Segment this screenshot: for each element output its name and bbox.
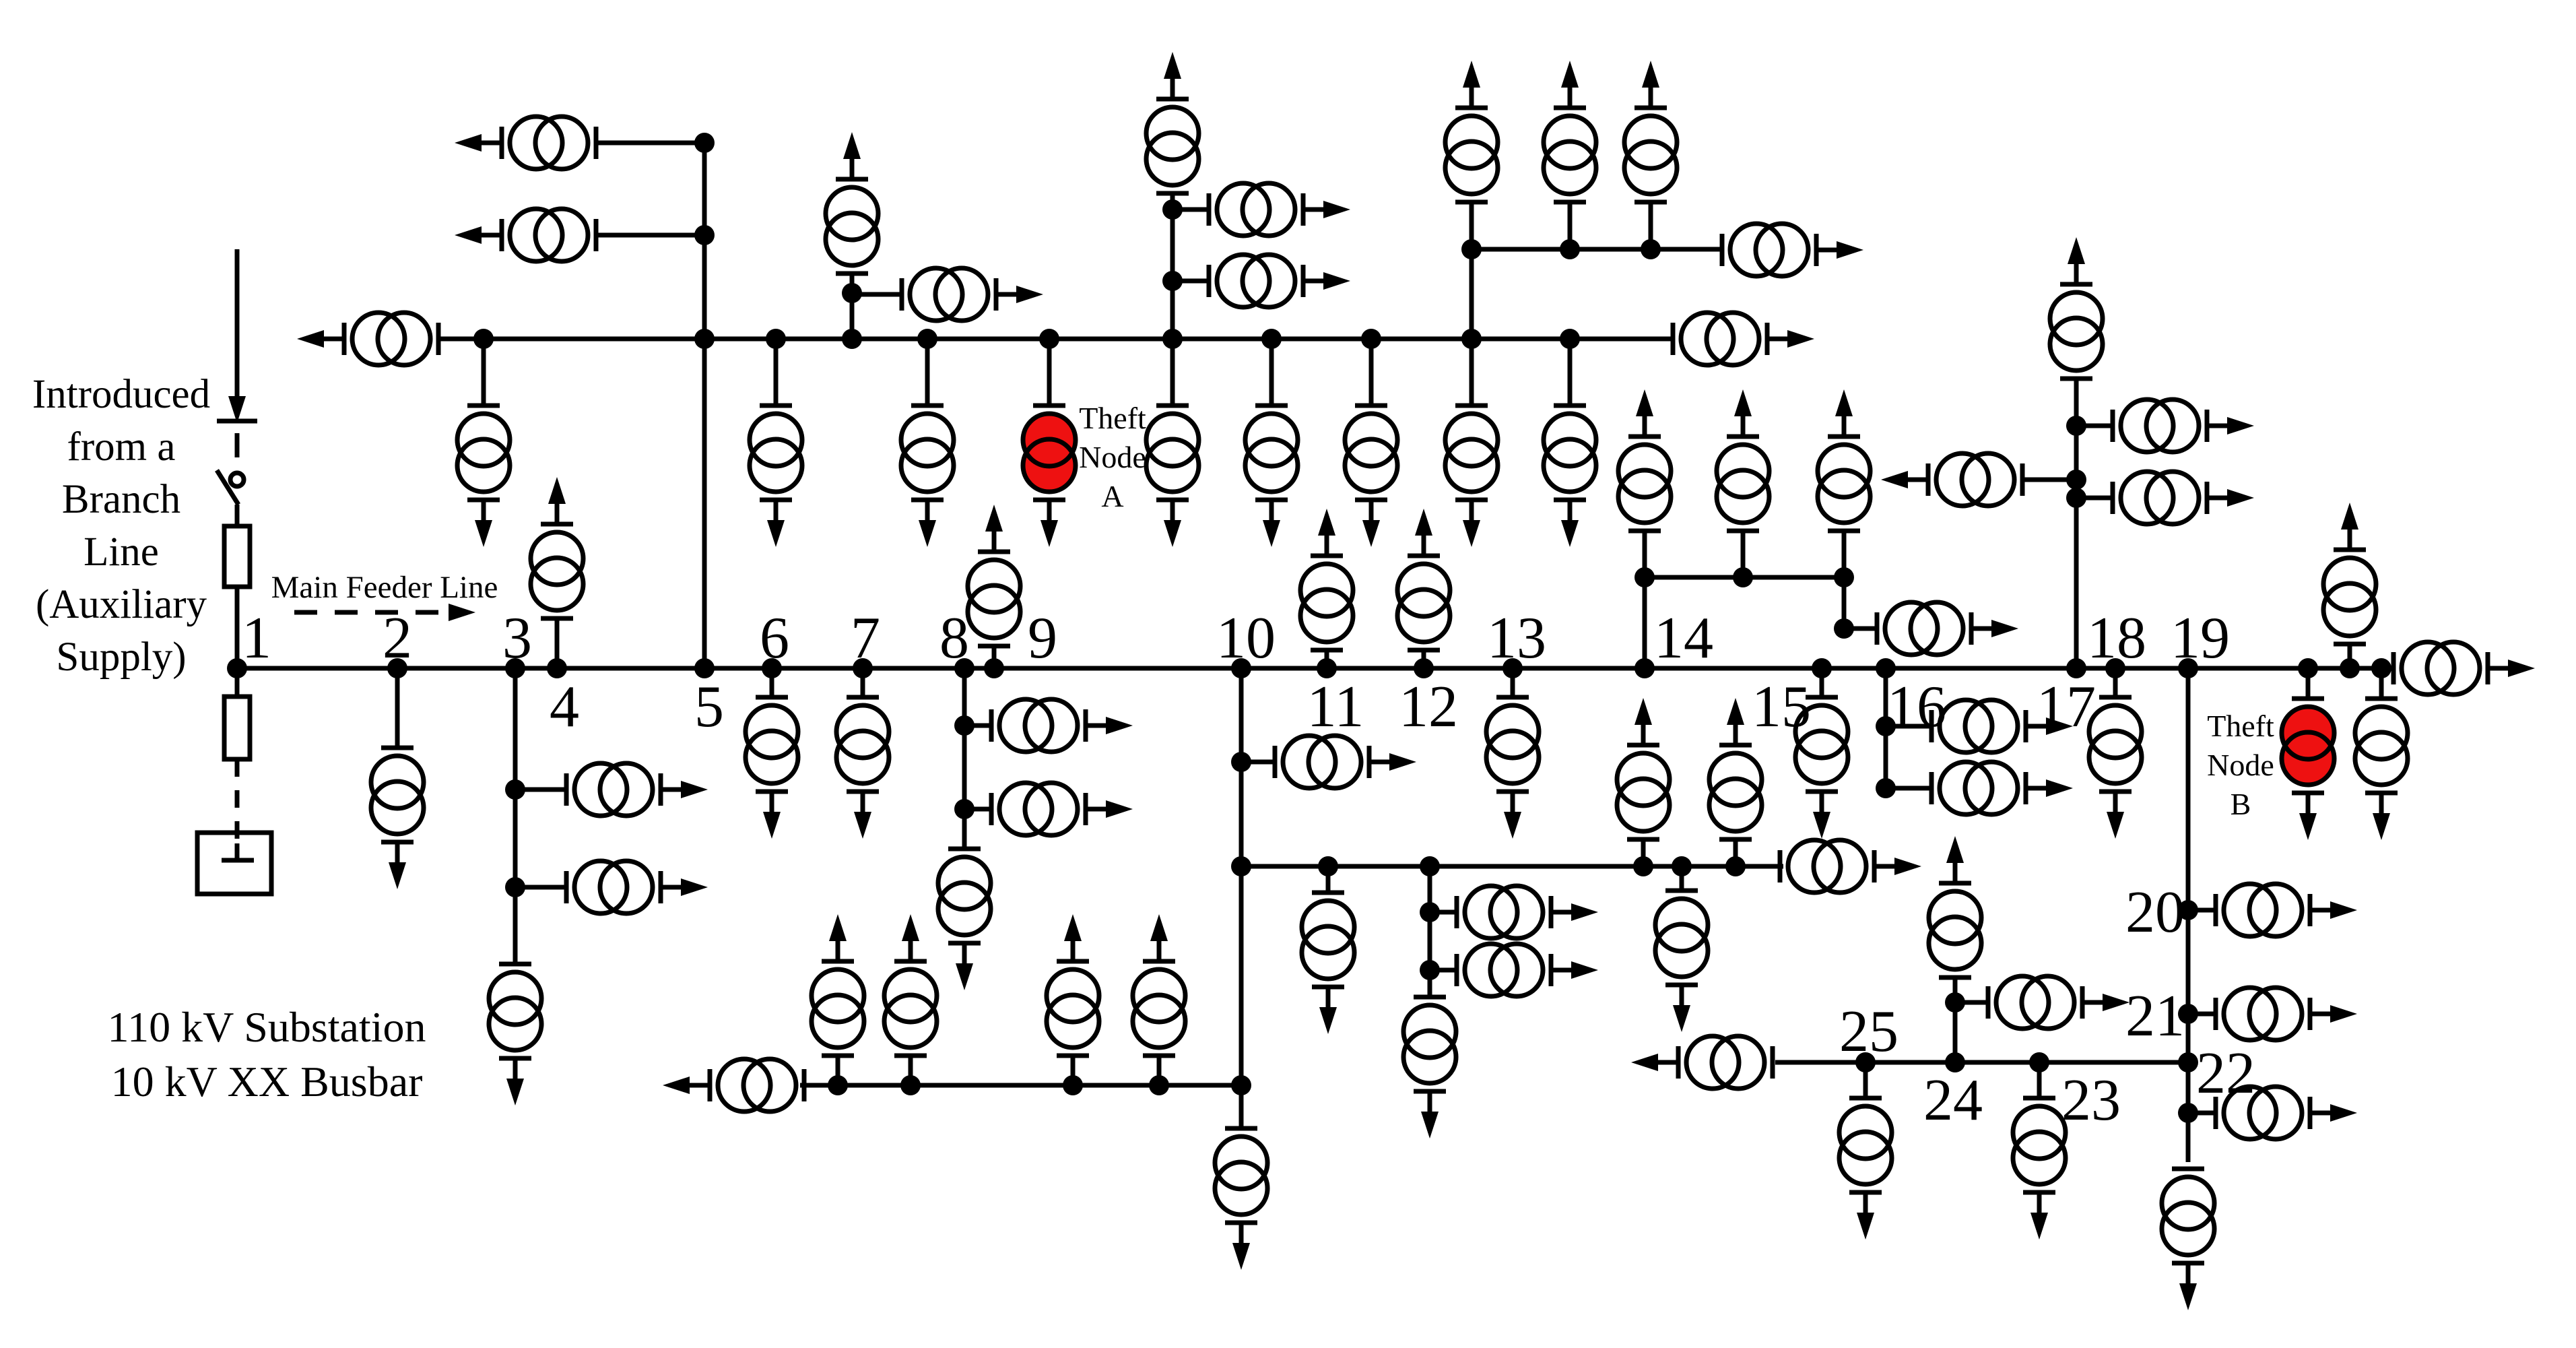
junction x=3249 y=1577 [2178, 1052, 2198, 1072]
transformer T43 [2355, 699, 2408, 840]
junction x=765 y=1317 [505, 877, 525, 897]
wire node-25 drop stub [1863, 1062, 1868, 1098]
junction x=1741 y=311 [1162, 199, 1183, 220]
junction x=1593 y=1611 [1063, 1075, 1083, 1095]
svg-text:21: 21 [2125, 984, 2185, 1049]
svg-text:B: B [2231, 787, 2251, 821]
wire sub-feeder drop stub 2497 [1680, 866, 1684, 891]
transformer T17 [1209, 183, 1350, 236]
transformer T58 [1457, 886, 1598, 938]
transformer T56 [1709, 698, 1762, 839]
transformer T33 [1300, 509, 1353, 650]
svg-text:8: 8 [939, 606, 969, 671]
transformer bus right end [1673, 313, 1814, 365]
transformer T62 [812, 914, 864, 1056]
transformer T20 [1544, 61, 1596, 202]
wire riser at 1741 [1170, 193, 1175, 339]
svg-text:3: 3 [502, 606, 532, 671]
wire node-5 riser [702, 143, 707, 668]
transformer T11 [1345, 406, 1397, 547]
junction x=1265 y=435 [842, 283, 862, 303]
junction bus x=1265 [842, 329, 862, 349]
junction x=3249 y=1351 [2178, 900, 2198, 920]
wire branch 10 right [1241, 760, 1275, 765]
transformer T71 [2162, 1169, 2214, 1310]
svg-text:15: 15 [1752, 674, 1811, 740]
junction x=1432 y=1077 [954, 715, 975, 736]
junction feeder x=1146 [762, 658, 782, 678]
svg-text:4: 4 [550, 674, 579, 740]
wire sub-feeder up stub 2440 [1641, 839, 1646, 866]
junction feeder x=2800 [1876, 658, 1896, 678]
junction x=2903 y=1577 [1945, 1052, 1965, 1072]
wire feeder drop stub [2113, 668, 2118, 697]
switch contact circle [230, 473, 244, 486]
svg-text:from a: from a [67, 424, 176, 470]
junction x=2738 y=857 [1834, 567, 1854, 587]
wire branch 21 right [2188, 1012, 2216, 1017]
transformer T53 [1302, 893, 1354, 1034]
svg-text:13: 13 [1487, 606, 1546, 671]
ground box [197, 833, 271, 894]
wire bus drop stub [925, 339, 930, 406]
transformer T13 [1544, 406, 1596, 547]
wire feeder drop stub [861, 668, 865, 697]
transformer T12 [1445, 406, 1498, 547]
junction x=2738 y=933 [1834, 618, 1854, 639]
transformer T50 [938, 849, 991, 990]
wire feeder drop stub [1511, 668, 1515, 697]
transformer T35 [2323, 503, 2376, 644]
svg-text:6: 6 [760, 606, 789, 671]
wire feeder up-tx stub [2348, 644, 2352, 668]
transformer T15 [902, 268, 1043, 321]
transformer T59 [1457, 944, 1598, 996]
wire branch 3 upper right [515, 788, 566, 792]
transformer T23 [1618, 389, 1671, 531]
wire top-left branch lower [595, 233, 704, 238]
junction x=2451 y=370 [1641, 239, 1661, 259]
transformer T25 [1818, 389, 1870, 531]
wire feeder drop stub [2379, 668, 2384, 699]
junction bus x=1046 [694, 329, 715, 349]
tick incoming supply [217, 419, 257, 424]
transformer T49 [991, 783, 1133, 835]
junction x=2497 y=1286 [1672, 856, 1692, 876]
theft transformer A [1023, 406, 1076, 547]
svg-text:A: A [1101, 479, 1123, 513]
junction x=3083 y=712 [2066, 470, 2086, 490]
wire sub-feeder [1241, 864, 1783, 869]
transformer T73 [1839, 1098, 1892, 1240]
junction x=1046 y=212 [694, 133, 715, 153]
transformer T75 [1929, 836, 1981, 977]
wire bus drop stub [482, 339, 486, 406]
wire node-16 vertical [1884, 668, 1888, 788]
transformer T36 [371, 748, 424, 889]
junction feeder x=1432 [954, 658, 975, 678]
junction feeder x=3536 [2371, 658, 2391, 678]
junction feeder x=352 [227, 658, 247, 678]
ground stem [235, 843, 240, 860]
svg-text:2: 2 [383, 606, 412, 671]
junction bus x=1377 [917, 329, 937, 349]
junction feeder x=3249 [2178, 658, 2198, 678]
transformer T5 [457, 406, 510, 547]
junction feeder x=3141 [2105, 658, 2125, 678]
transformer T27 [2050, 237, 2103, 379]
wire branch 8 upper right [964, 724, 991, 728]
wire branch 1741 lower right [1173, 279, 1209, 284]
wire branch 16 upper right [1886, 724, 1931, 729]
wire line-857 tx stub [1741, 531, 1746, 577]
svg-text:25: 25 [1839, 999, 1898, 1064]
wire feeder drop stub [395, 668, 400, 748]
wire line-857 [1645, 575, 1844, 580]
wire node 1 down [235, 668, 240, 697]
wire bus drop stub [1047, 339, 1052, 406]
transformer T24 [1717, 389, 1769, 531]
switch blade [217, 470, 238, 505]
wire line-1611 up stub [836, 1056, 840, 1085]
junction x=1244 y=1611 [828, 1075, 848, 1095]
junction x=1741 y=417 [1162, 271, 1183, 291]
junction bus x=1558 [1039, 329, 1059, 349]
wire node-14 riser [1643, 531, 1647, 668]
wire line-1611 up stub [909, 1056, 913, 1085]
transformer T68 [2216, 884, 2357, 936]
transformer T29 [1881, 453, 2022, 506]
wire branch 20 right [2188, 908, 2216, 913]
junction x=1721 y=1611 [1149, 1075, 1169, 1095]
transformer bus left end [297, 313, 438, 365]
junction x=2442 y=857 [1634, 567, 1655, 587]
wire riser 2185 to sub-line [1469, 249, 1474, 339]
transformer T45 [566, 763, 708, 816]
transformer T41 [2089, 697, 2142, 839]
junction feeder x=1970 [1317, 658, 1337, 678]
junction bus x=2036 [1361, 329, 1381, 349]
wire branch 2123 upper right [1430, 910, 1457, 915]
transformer T65 [1133, 914, 1185, 1056]
svg-text:Node: Node [2207, 748, 2274, 782]
wire switch to resistor [235, 505, 240, 526]
transformer T14 [826, 132, 878, 274]
dashed arrow main feeder [294, 610, 450, 615]
junction x=2123 y=1354 [1420, 902, 1440, 922]
wire 2738 down stub [1842, 577, 1847, 629]
junction feeder x=2705 [1812, 658, 1832, 678]
wire resistor to node 1 [235, 587, 240, 668]
wire sub-feeder up stub 2577 [1733, 839, 1738, 866]
junction x=1843 y=1131 [1231, 752, 1251, 772]
svg-text:23: 23 [2061, 1068, 2121, 1133]
junction x=2331 y=370 [1560, 239, 1580, 259]
wire branch 1741 upper right [1173, 207, 1209, 212]
junction x=2577 y=1286 [1725, 856, 1746, 876]
junction feeder x=2442 [1634, 658, 1655, 678]
junction feeder x=1046 [694, 658, 715, 678]
transformer T28 [2113, 399, 2254, 452]
svg-text:Theft: Theft [2207, 709, 2274, 743]
svg-text:5: 5 [694, 674, 724, 740]
svg-text:24: 24 [1923, 1068, 1983, 1133]
junction x=1843 y=1286 [1231, 856, 1251, 876]
transformer feeder right end [2393, 642, 2535, 695]
resistor lower rectangle [224, 697, 250, 759]
transformer T7 [901, 406, 954, 547]
transformer T30 [2113, 472, 2254, 524]
svg-text:20: 20 [2125, 880, 2185, 945]
svg-text:19: 19 [2171, 606, 2230, 671]
junction x=1972 y=1286 [1318, 856, 1338, 876]
wire feeder up-tx stub [1422, 650, 1426, 668]
transformer T16 [1146, 52, 1199, 193]
junction feeder x=1281 [853, 658, 873, 678]
junction bus x=2185 [1461, 329, 1482, 349]
wire branch 17 upper right [2076, 424, 2113, 428]
junction x=2770 y=1577 [1855, 1052, 1876, 1072]
junction x=3249 y=1505 [2178, 1004, 2198, 1024]
svg-text:Line: Line [84, 529, 159, 575]
junction feeder x=3489 [2340, 658, 2360, 678]
transformer T37 [746, 697, 798, 839]
transformer T1 [455, 117, 596, 169]
wire line-1611 up stub [1157, 1056, 1162, 1085]
junction feeder x=1843 [1231, 658, 1251, 678]
junction feeder x=590 [387, 658, 407, 678]
junction x=2123 y=1286 [1420, 856, 1440, 876]
transformer T6 [750, 406, 802, 547]
svg-text:Branch: Branch [62, 477, 180, 522]
wire branch 8 lower right [964, 807, 991, 812]
wire branch 2738 right [1844, 627, 1877, 631]
svg-text:14: 14 [1654, 606, 1713, 671]
arrowhead incoming supply [228, 396, 246, 423]
transformer T64 [1047, 914, 1099, 1056]
transformer T21 [1624, 61, 1677, 202]
junction feeder x=1476 [984, 658, 1004, 678]
junction feeder x=2114 [1414, 658, 1434, 678]
transformer line-1611 left end [663, 1059, 804, 1112]
junction bus x=1152 [766, 329, 786, 349]
wire node-10 vertical [1239, 668, 1244, 1128]
ground bar [222, 858, 254, 863]
junction x=2440 y=1286 [1633, 856, 1653, 876]
wire line-1611 [800, 1083, 1241, 1088]
junction x=765 y=1172 [505, 779, 525, 800]
wire node-23 drop stub [2037, 1062, 2042, 1098]
wire dashed to ground box [235, 759, 240, 843]
wire bus drop stub [1469, 339, 1474, 406]
junction x=3028 y=1577 [2029, 1052, 2049, 1072]
junction feeder x=2246 [1502, 658, 1523, 678]
svg-text:12: 12 [1399, 674, 1458, 740]
transformer T66 [1931, 700, 2073, 752]
wire branch 2123 lower right [1430, 968, 1457, 973]
wire sub-feeder drop stub 1972 [1326, 866, 1331, 893]
junction x=2800 y=1078 [1876, 716, 1896, 736]
svg-text:Supply): Supply) [56, 635, 186, 680]
wire sub-line upper [1472, 247, 1722, 252]
svg-text:17: 17 [2037, 674, 2096, 740]
svg-text:18: 18 [2087, 606, 2146, 671]
transformer T31 [531, 477, 583, 618]
wire main feeder line [237, 666, 2393, 671]
wire feeder up-tx stub [1325, 650, 1329, 668]
transformer T67 [1931, 762, 2073, 814]
transformer T22 [1722, 224, 1863, 276]
svg-text:1: 1 [242, 606, 271, 671]
junction x=2588 y=857 [1733, 567, 1753, 587]
svg-text:Main Feeder Line: Main Feeder Line [271, 570, 498, 605]
svg-text:Introduced: Introduced [32, 372, 210, 417]
transformer T63 [884, 914, 937, 1056]
junction x=2185 y=370 [1461, 239, 1482, 259]
transformer T55 [1655, 891, 1708, 1032]
svg-text:10: 10 [1216, 606, 1276, 671]
dashed arrow head [449, 604, 475, 621]
transformer T69 [2216, 988, 2357, 1040]
wire feeder drop stub [770, 668, 774, 697]
wire feeder up-tx stub [992, 646, 997, 668]
junction x=1352 y=1611 [900, 1075, 921, 1095]
transformer sub-feeder end [1780, 840, 1921, 893]
transformer T60 [1403, 997, 1456, 1138]
junction x=1046 y=349 [694, 225, 715, 245]
transformer T10 [1245, 406, 1298, 547]
wire line-857 tx stub [1842, 531, 1847, 577]
wire sub-line tx stub [1568, 202, 1573, 249]
wire bus drop stub [1568, 339, 1573, 406]
wire bus drop stub [1269, 339, 1274, 406]
transformer T34 [1397, 509, 1450, 650]
wire feeder up-tx stub [555, 618, 560, 668]
svg-text:16: 16 [1887, 674, 1946, 740]
transformer T18 [1209, 255, 1350, 307]
wire bus drop stub [1369, 339, 1374, 406]
junction x=2903 y=1488 [1945, 992, 1965, 1013]
transformer T38 [836, 697, 889, 839]
wire node-17 riser [2074, 379, 2079, 668]
wire node-3 vertical [513, 668, 518, 964]
wire branch 22 right [2188, 1111, 2216, 1116]
transformer T32 [968, 505, 1020, 646]
transformer T47 [489, 964, 541, 1105]
junction feeder x=827 [547, 658, 567, 678]
wire line-1577 [1775, 1060, 2188, 1065]
wire branch 24 right [1955, 1000, 1988, 1005]
transformer T40 [1795, 697, 1848, 839]
junction x=3249 y=1652 [2178, 1103, 2198, 1123]
wire feeder drop stub [2306, 668, 2311, 699]
wire line-1611 up stub [1071, 1056, 1076, 1085]
resistor upper rectangle [224, 526, 250, 587]
wire 2123 vertical [1428, 866, 1432, 997]
junction x=2123 y=1440 [1420, 960, 1440, 980]
wire branch 17 left [2022, 478, 2076, 482]
svg-text:11: 11 [1307, 674, 1364, 740]
transformer T19 [1445, 61, 1498, 202]
transformer T76 [1988, 976, 2129, 1029]
transformer T52 [1215, 1128, 1267, 1270]
svg-text:22: 22 [2196, 1041, 2255, 1106]
junction feeder x=3427 [2298, 658, 2318, 678]
wire sub-line tx stub [1469, 202, 1474, 249]
junction x=2800 y=1170 [1876, 778, 1896, 798]
transformer T46 [566, 861, 708, 913]
wire branch 3 lower right [515, 885, 566, 890]
junction bus x=718 [473, 329, 494, 349]
svg-text:(Auxiliary: (Auxiliary [36, 582, 207, 627]
wire bus drop stub [774, 339, 779, 406]
wire sub-line tx stub [1649, 202, 1653, 249]
theft transformer B [2282, 699, 2334, 840]
svg-text:Theft: Theft [1079, 401, 1146, 435]
svg-text:110 kV Substation: 110 kV Substation [108, 1003, 426, 1051]
transformer T2 [455, 209, 596, 261]
junction x=1432 y=1201 [954, 799, 975, 819]
wire gap dash [235, 433, 240, 457]
junction bus x=1888 [1261, 329, 1282, 349]
transformer T26 [1877, 602, 2018, 655]
wire node-8 vertical [962, 668, 967, 849]
junction x=1843 y=1611 [1231, 1075, 1251, 1095]
wire node-19 vertical [2186, 668, 2191, 1162]
svg-text:7: 7 [851, 606, 880, 671]
wire branch 16 lower right [1886, 786, 1931, 791]
wire branch 1265 right [852, 292, 902, 297]
wire upper bus [438, 337, 1673, 342]
junction x=3083 y=632 [2066, 416, 2086, 436]
transformer T9 [1146, 406, 1199, 547]
transformer T54 [1617, 698, 1670, 839]
svg-text:10 kV XX Busbar: 10 kV XX Busbar [111, 1058, 423, 1105]
svg-text:Node: Node [1079, 440, 1146, 474]
junction bus x=1741 [1162, 329, 1183, 349]
transformer line-1577 left end [1631, 1036, 1773, 1089]
wire branch 17 lower right [2076, 496, 2113, 501]
junction bus x=2331 [1560, 329, 1580, 349]
junction feeder x=765 [505, 658, 525, 678]
wire node-24 vertical [1953, 977, 1958, 1062]
junction feeder x=3083 [2066, 658, 2086, 678]
junction x=3083 y=739 [2066, 488, 2086, 508]
wire riser at 1265 [850, 274, 855, 339]
transformer T48 [991, 699, 1133, 752]
wire top-left branch upper [596, 141, 704, 146]
transformer T39 [1486, 697, 1539, 839]
transformer T70 [2216, 1087, 2357, 1139]
wire bus drop stub [1170, 339, 1175, 406]
transformer T74 [2013, 1098, 2066, 1240]
svg-text:9: 9 [1028, 606, 1057, 671]
wire incoming supply line [235, 249, 240, 399]
wire feeder drop stub [1820, 668, 1824, 697]
transformer T51 [1275, 736, 1416, 788]
